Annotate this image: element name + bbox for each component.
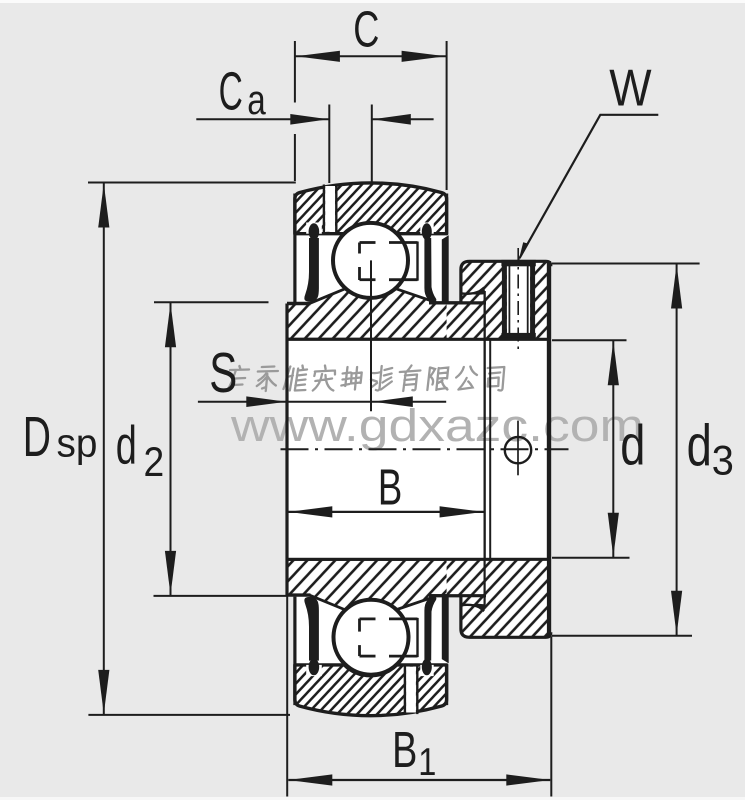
dim d line with arrows — [612, 340, 614, 557]
svg-text:2: 2 — [144, 438, 165, 485]
dim d extension lines — [552, 339, 627, 341]
dim Dsp extension lines — [88, 182, 296, 184]
dim B1 line with arrows — [288, 779, 550, 781]
set screw side walls — [502, 262, 507, 338]
outer ring upper (spherical OD section) — [295, 183, 447, 234]
inner ring left face / B-B1 extension line — [285, 304, 288, 596]
white cavity fills — [287, 231, 549, 668]
dim S line with arrows — [198, 401, 287, 403]
set screw axis line — [517, 248, 519, 352]
svg-text:sp: sp — [57, 422, 98, 466]
svg-text:d: d — [620, 413, 645, 477]
outer ring lower (spherical OD section) — [295, 665, 447, 716]
inner ring right face edge line — [484, 291, 486, 605]
seal flinger bar upper right — [442, 235, 449, 302]
svg-text:d: d — [116, 415, 137, 475]
inner ring upper section — [287, 289, 485, 340]
ball upper — [333, 223, 408, 298]
svg-text:D: D — [23, 405, 51, 469]
dim Dsp line with arrows — [103, 183, 105, 715]
cage upper (dashed) — [358, 243, 361, 254]
set screw end caps — [501, 260, 535, 266]
collar eccentric step hook lower — [461, 604, 486, 611]
set screw thread lines — [508, 266, 510, 333]
svg-text:www.gdxazc.com: www.gdxazc.com — [230, 400, 644, 451]
collar bore edge line — [489, 339, 491, 558]
dim d2 line with arrows — [170, 302, 172, 596]
dim Ca extension lines — [328, 105, 330, 184]
ball lower — [334, 600, 409, 675]
svg-text:C: C — [353, 0, 379, 57]
svg-text:W: W — [609, 60, 651, 118]
svg-text:3: 3 — [712, 436, 734, 483]
svg-text:d: d — [687, 413, 712, 478]
outer ring right face lower — [445, 664, 448, 705]
locking collar lower section — [447, 559, 551, 637]
seal upper right — [420, 223, 433, 234]
outer ring left face lower — [293, 597, 296, 706]
svg-text:B: B — [392, 721, 417, 778]
collar lower outline — [461, 596, 551, 638]
outer ring left face upper — [293, 194, 296, 303]
seal flinger bar lower right — [442, 597, 449, 664]
ball center line upper — [370, 260, 372, 411]
shaft axis center line — [281, 448, 569, 450]
bore cavity — [287, 339, 549, 558]
seal lower right — [420, 665, 433, 676]
dim Ca line with arrows — [196, 118, 329, 120]
dim B1 extension line right — [550, 636, 552, 796]
svg-text:C: C — [219, 62, 243, 122]
seal upper left — [306, 223, 322, 234]
dim B line with arrows — [288, 511, 483, 513]
dim d3 line with arrows — [676, 264, 678, 636]
watermark chinese company name — [227, 366, 505, 392]
svg-text:B: B — [378, 459, 402, 516]
set screw side-view hole — [505, 437, 531, 463]
upper cavity between rings — [295, 231, 447, 305]
lubrication hole lower outer ring — [406, 667, 416, 713]
collar shared edges restrokes — [547, 261, 551, 636]
dim C extension lines — [294, 41, 296, 103]
inner ring lower outline — [287, 593, 311, 596]
svg-text:S: S — [209, 341, 237, 405]
svg-text:a: a — [247, 76, 266, 123]
seal lower left — [306, 665, 322, 676]
leader W — [520, 115, 659, 258]
dim d2 extension lines — [154, 301, 269, 303]
dim C line with arrows — [295, 55, 447, 57]
outer ring right face upper — [445, 194, 448, 235]
inner ring upper outline — [287, 302, 311, 305]
dim d3 extension lines — [552, 263, 700, 265]
bore top edge — [286, 338, 549, 341]
lubrication hole upper outer ring — [325, 186, 335, 232]
inner ring lower section — [287, 559, 485, 610]
collar upper outline — [461, 261, 551, 303]
collar right face — [547, 261, 551, 636]
collar eccentric step hook upper — [461, 288, 486, 295]
lower cavity between rings — [295, 594, 447, 668]
bore bottom edge — [286, 558, 549, 561]
cage lower (dashed) — [358, 645, 361, 656]
svg-text:1: 1 — [418, 741, 436, 784]
locking collar upper section — [447, 261, 551, 339]
set screw W window — [507, 264, 530, 336]
